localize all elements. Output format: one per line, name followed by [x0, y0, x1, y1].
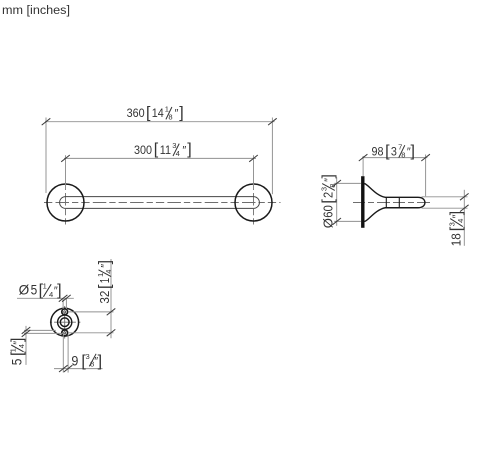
svg-text:]: ] [448, 211, 465, 215]
dimension 18: extension line bottom [422, 207, 468, 209]
svg-text:8: 8 [328, 183, 337, 187]
svg-text:[: [ [320, 199, 337, 204]
dimension 9: tick right [64, 365, 73, 372]
dimension D60: tick bottom [332, 218, 341, 225]
dimension 98: dimension line [362, 157, 427, 159]
dimension D60: tick top [332, 180, 341, 187]
dimension 360 label [127, 104, 184, 121]
svg-text:5: 5 [10, 359, 25, 366]
svg-text:[: [ [385, 143, 390, 160]
svg-text:11: 11 [160, 143, 171, 157]
dimension D5: extension line right [65, 298, 67, 309]
center line horizontal (detail) [50, 321, 81, 323]
dimension D60: extension line bottom [334, 220, 361, 222]
svg-text:]: ] [96, 260, 113, 264]
dimension 32: dimension line [110, 259, 112, 338]
dimension 360: extension line right [271, 118, 273, 195]
trumpet body outline [365, 184, 425, 222]
svg-text:Ø: Ø [321, 218, 336, 228]
svg-text:″: ″ [175, 108, 179, 120]
svg-text:2: 2 [321, 192, 336, 198]
dimension D5 label [19, 282, 62, 299]
dimension 360: tick left [42, 118, 51, 125]
dimension D60: dimension line [336, 177, 338, 225]
dimension 18: extension line top [422, 196, 468, 198]
plate outer circle [51, 308, 79, 336]
dimension 300: dimension line [64, 157, 256, 159]
svg-text:]: ] [98, 353, 102, 370]
dimension 18: tick top [460, 193, 469, 200]
dimension 9: extension line left [62, 335, 64, 373]
dimension 5: tick top [22, 327, 31, 334]
dimension 5: tick bottom [22, 330, 31, 337]
center line vertical left flange [65, 182, 67, 225]
dimension 18 label (rotated) [448, 211, 465, 246]
svg-text:]: ] [57, 282, 61, 299]
center line horizontal (front view) [44, 202, 281, 204]
screw hole top [62, 309, 68, 315]
dimension 360: dimension line [45, 121, 275, 123]
svg-text:3: 3 [391, 144, 397, 158]
svg-text:4: 4 [104, 269, 113, 273]
wall plate (thick bar) [361, 176, 364, 228]
svg-text:]: ] [187, 141, 191, 158]
screw hole top center [64, 311, 66, 313]
dimension 98 label [372, 143, 415, 160]
svg-text:]: ] [320, 174, 337, 178]
dimension D60 label (rotated) [320, 174, 337, 228]
dimension 300 label [134, 141, 192, 158]
center line vertical (detail) [64, 306, 66, 339]
bar (rounded ends) [60, 197, 260, 209]
dimension 360: tick right [268, 118, 277, 125]
svg-text:]: ] [9, 338, 26, 342]
dimension 32: extension line top [68, 311, 114, 313]
dimension D5: extension line left [62, 298, 64, 309]
dimension 9: dimension line [54, 368, 103, 370]
screw hole bottom [62, 330, 68, 336]
svg-text:32: 32 [97, 291, 112, 304]
svg-text:360: 360 [127, 106, 145, 120]
plate inner circle [60, 318, 69, 327]
dimension 5: dimension line [25, 326, 27, 365]
dimension D5: leader line [17, 297, 74, 299]
svg-text:9: 9 [71, 353, 78, 368]
dimension 18: dimension line [463, 190, 465, 246]
dimension 32: tick bottom [107, 329, 116, 336]
dimension 300: extension line left [65, 155, 67, 189]
center line vertical right flange [253, 182, 255, 225]
dimension 5 label (rotated) [9, 338, 26, 366]
svg-text:Ø: Ø [19, 283, 30, 298]
dimension 5: extension line bottom [24, 332, 64, 334]
svg-text:18: 18 [449, 233, 464, 246]
svg-text:[: [ [96, 284, 113, 289]
svg-text:60: 60 [321, 205, 336, 218]
svg-text:1: 1 [97, 278, 112, 283]
svg-text:[: [ [154, 141, 159, 158]
svg-text:5: 5 [31, 283, 38, 298]
svg-text:98: 98 [372, 144, 384, 158]
dimension 9: extension line right [67, 335, 69, 373]
dimension 9: tick left [59, 365, 68, 372]
svg-text:]: ] [411, 143, 415, 160]
dimension 32: extension line bottom [68, 332, 114, 334]
dimension 98: extension line right [425, 155, 427, 197]
svg-text:1: 1 [43, 282, 47, 291]
left flange circle [47, 184, 84, 221]
dimension 98: tick right [421, 154, 430, 161]
dimension 18: tick bottom [460, 205, 469, 212]
stem division line 1 [385, 197, 387, 207]
dimension D60: extension line top [334, 182, 361, 184]
plate middle ring [58, 315, 72, 329]
svg-text:[: [ [146, 105, 151, 122]
dimension 32: tick top [107, 308, 116, 315]
dimension 300: tick left [61, 155, 70, 162]
stem division line 2 [398, 197, 400, 207]
svg-text:″: ″ [182, 144, 186, 156]
dimension 300: extension line right [253, 155, 255, 189]
dimension 5: extension line top [24, 329, 56, 331]
svg-text:300: 300 [134, 143, 152, 157]
svg-text:14: 14 [152, 106, 164, 120]
svg-text:mm [inches]: mm [inches] [2, 3, 70, 17]
dimension D5: tick right [62, 295, 71, 302]
dimension 32 label (rotated) [96, 260, 113, 304]
dimension 360: extension line left [45, 118, 47, 194]
right flange circle [235, 184, 272, 221]
svg-text:8: 8 [168, 113, 172, 122]
center line horizontal (side view) [353, 202, 430, 204]
svg-text:4: 4 [49, 290, 53, 299]
dimension 98: extension line left [362, 156, 364, 176]
dimension 98: tick left [359, 154, 368, 161]
screw hole bottom center [64, 332, 66, 334]
svg-text:4: 4 [176, 149, 180, 158]
dimension 9 label [71, 352, 102, 370]
svg-text:8: 8 [401, 151, 405, 160]
dimension 300: tick right [249, 155, 258, 162]
dimension D5: tick left [59, 295, 68, 302]
svg-text:]: ] [179, 105, 183, 122]
